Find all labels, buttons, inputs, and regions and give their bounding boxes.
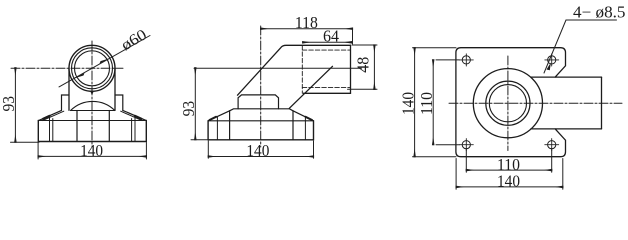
bore circle d60 (72, 48, 113, 89)
left ear (62, 95, 70, 110)
label leader arrowhead (547, 63, 551, 71)
pedestal side left (76, 111, 78, 141)
svg-text:64: 64 (323, 26, 339, 45)
d60 leader line (59, 36, 150, 87)
dim 140 bottom line (456, 186, 563, 188)
base inner line 4 (134, 117, 136, 141)
base inner line right (304, 117, 306, 140)
d60 arrow lower (74, 73, 84, 78)
base inner line 3 (131, 119, 133, 142)
hole TL (462, 56, 470, 64)
horizontal centerline (11, 67, 123, 69)
d60 arrow upper (100, 58, 110, 63)
hole TR cross (545, 54, 559, 66)
shoulder slope right (293, 111, 314, 121)
mid step top (230, 109, 293, 111)
dim 93 line (14, 68, 16, 142)
hole BL (462, 141, 470, 149)
dim 140 extension left middle (207, 141, 209, 158)
dim 140 line middle view (208, 156, 313, 158)
right ear (115, 95, 123, 110)
dim 118 right extension (352, 29, 354, 44)
corner chamfer left (43, 116, 50, 119)
top step (238, 95, 278, 109)
band right end (601, 77, 603, 129)
shoulder slope left (208, 111, 230, 121)
band bottom edge (531, 128, 602, 130)
bore chamfer circle (75, 51, 110, 86)
dim 110 bottom extension right (551, 149, 553, 173)
base plate top edge (208, 120, 313, 122)
dim 48 extension top (352, 44, 377, 46)
svg-text:118: 118 (295, 13, 318, 32)
band top edge (531, 76, 602, 78)
dim 64 line (303, 41, 352, 43)
dim 140 extension right (145, 143, 147, 160)
dim 118 line (261, 28, 353, 30)
base plate top edge (38, 120, 146, 122)
dim 110 bottom line (466, 169, 551, 171)
vertical centerline (260, 26, 262, 147)
svg-text:110: 110 (417, 92, 436, 115)
hole BL cross (460, 139, 474, 151)
hole TL cross (460, 54, 474, 66)
arm upper edge (238, 45, 351, 95)
dim 48 line (373, 45, 375, 89)
dim 140v top extension (413, 47, 457, 49)
mid step side right (292, 111, 294, 140)
pedestal side right (108, 111, 110, 141)
svg-text:140: 140 (80, 141, 103, 160)
svg-text:4− ø8.5: 4− ø8.5 (573, 3, 626, 22)
shoulder slope left (39, 110, 62, 120)
dim 140 extension right middle (313, 141, 315, 158)
block bottom edge (303, 92, 350, 94)
label leader line (544, 20, 566, 73)
shoulder slope right (123, 110, 146, 120)
dome arc (71, 101, 115, 110)
svg-text:140: 140 (398, 92, 417, 115)
hole BR (548, 141, 556, 149)
small down arrow on centerline (90, 91, 94, 96)
bore hidden line bottom (302, 87, 350, 89)
base plate outline (38, 121, 146, 142)
dim 110 bottom extension left (465, 149, 467, 173)
bore circle (489, 85, 526, 122)
shoulder slope left inner (43, 111, 64, 120)
svg-text:93: 93 (179, 101, 198, 117)
dim 140 bottom extension right (562, 159, 564, 190)
corner chamfer right (135, 116, 142, 119)
block right edge (350, 45, 352, 93)
bore hidden line top (302, 49, 350, 51)
cylinder outer circle (69, 45, 115, 91)
cylinder circle (486, 81, 530, 125)
shoulder slope right inner (121, 111, 142, 120)
hole TR (548, 56, 556, 64)
plate outline (456, 48, 566, 157)
dim 140 line (38, 155, 146, 157)
base inner line left (216, 117, 218, 140)
svg-text:140: 140 (497, 171, 520, 190)
corner chamfer right (306, 117, 313, 120)
dim 140 vertical line (414, 48, 416, 157)
svg-text:93: 93 (0, 96, 18, 112)
base inner line 1 (49, 117, 51, 141)
base inner line 2 (52, 119, 54, 142)
svg-text:48: 48 (353, 57, 372, 73)
axis line (194, 67, 362, 69)
hole BR cross (545, 139, 559, 151)
dome base line (71, 110, 115, 112)
dim 140v bottom extension (413, 156, 457, 158)
dim 93 line middle view (194, 68, 196, 140)
block left hidden edge (301, 45, 303, 93)
label underline (566, 19, 617, 21)
column side left (68, 68, 70, 110)
column side right (114, 68, 116, 110)
base plate outline (208, 121, 313, 140)
dim 140 bottom extension left (455, 159, 457, 190)
dim 110v top extension (436, 59, 460, 61)
vertical centerline (91, 41, 93, 147)
svg-text:140: 140 (246, 141, 269, 160)
horizontal centerline (449, 102, 622, 104)
dim 93 bottom extension (11, 141, 40, 143)
dim 48 extension bottom (348, 88, 378, 90)
corner chamfer left (210, 117, 217, 120)
dim 93 bottom extension middle view (191, 139, 209, 141)
vertical centerline (507, 56, 509, 151)
dim 140 extension left (37, 143, 39, 160)
mid step side left (229, 111, 231, 140)
boss circle (473, 69, 542, 138)
dim 110v bottom extension (436, 144, 460, 146)
dim 110 vertical line (432, 60, 434, 145)
arm lower edge (289, 66, 332, 108)
